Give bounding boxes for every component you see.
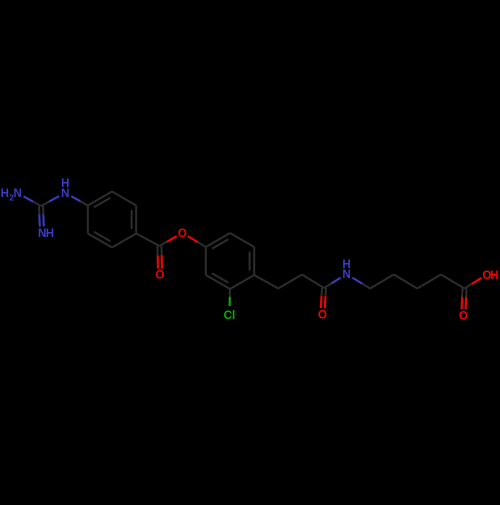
double bond C=NH (imine) [39, 206, 44, 227]
label O (ester bridge) [178, 228, 187, 240]
bond chain CH2-CH2 (2) [394, 275, 418, 289]
label O (amide) [318, 309, 327, 321]
bond CH2-COOH [441, 275, 465, 289]
label O (ester carbonyl) [156, 269, 165, 281]
bond C-OH [465, 278, 482, 289]
label OH (acid) [482, 270, 498, 282]
bond chain CH2-CH2 (3) [417, 275, 441, 289]
bond CH2-C(=O) amide [302, 275, 324, 289]
svg-text:H: H [46, 228, 54, 240]
label Cl [224, 310, 236, 322]
bond ring2-Cl [229, 289, 231, 306]
label N-H (anilino) [61, 178, 69, 200]
svg-text:H: H [1, 188, 9, 200]
double bond C=O (ester carbonyl) [158, 246, 162, 269]
bond ring1-C(=O) [136, 234, 159, 247]
bond CH2-CH2 [278, 275, 302, 289]
bond H2N-C [24, 196, 41, 206]
svg-text:O: O [178, 228, 187, 240]
bond C-O (ester) [160, 236, 177, 246]
label NH (imine) [38, 228, 54, 240]
svg-text:O: O [318, 309, 327, 321]
label H2N (guanidine amine) [1, 188, 22, 202]
svg-text:O: O [156, 269, 165, 281]
bond O-ring2 [188, 236, 206, 247]
bond N-ring1 [71, 196, 88, 205]
label O (acid carbonyl) [459, 310, 468, 322]
bond C-N (amide) [324, 278, 341, 288]
bond chain CH2-CH2 (1) [370, 275, 394, 289]
svg-text:N: N [13, 188, 21, 200]
bond N-CH2 [353, 278, 371, 289]
svg-text:H: H [490, 270, 498, 282]
svg-text:Cl: Cl [224, 310, 236, 322]
double bond C=O (acid) [462, 288, 467, 309]
svg-text:O: O [459, 310, 468, 322]
benzene ring 2 (chlorophenyl) [206, 233, 254, 289]
benzene ring 1 [88, 192, 136, 248]
svg-text:H: H [342, 259, 350, 271]
bond C-NH(phenyl) [41, 196, 59, 206]
svg-text:H: H [61, 178, 69, 190]
double bond C=O (amide) [321, 288, 326, 308]
label N-H (amide) [342, 259, 350, 281]
bond ring2-CH2 [254, 275, 278, 289]
